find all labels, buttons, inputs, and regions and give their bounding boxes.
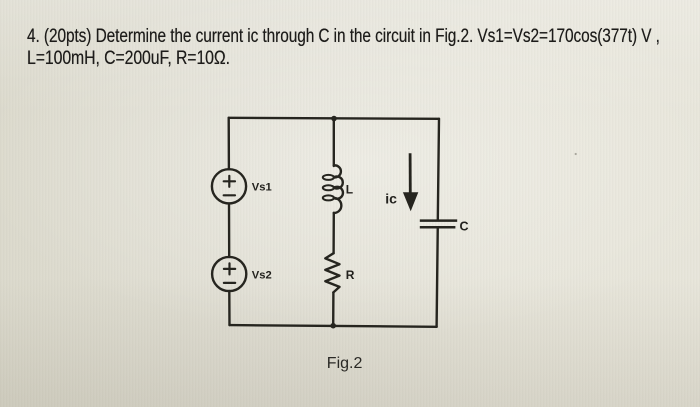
wire middle upper — [333, 118, 335, 166]
problem text line 2 — [27, 48, 230, 70]
svg-text:L: L — [346, 182, 353, 196]
problem text line 1 — [27, 26, 660, 48]
Vs2 plus sign — [224, 263, 235, 274]
wire left middle — [228, 203, 231, 257]
wire right lower — [437, 228, 438, 327]
wire middle between L and R — [332, 213, 335, 253]
junction dot top — [331, 116, 337, 122]
wire right upper — [438, 119, 439, 220]
current arrow ic shaft — [409, 153, 412, 194]
wire top — [229, 118, 439, 119]
junction dot bottom — [330, 323, 336, 329]
svg-text:Vs1: Vs1 — [252, 182, 272, 194]
Vs2 minus sign — [224, 282, 235, 284]
inductor L loop 3 — [323, 195, 334, 200]
wire left upper — [227, 118, 230, 169]
svg-text:Fig.2: Fig.2 — [327, 355, 363, 372]
svg-text:R: R — [346, 268, 355, 282]
wire middle lower — [332, 292, 335, 325]
inductor L loop 2 — [323, 185, 334, 190]
voltage source Vs1 circle — [212, 169, 246, 203]
capacitor C top plate — [420, 219, 457, 222]
speck artifact — [575, 153, 577, 155]
capacitor C bottom plate — [420, 226, 456, 229]
voltage source Vs2 circle — [212, 257, 246, 291]
inductor L loop 1 — [323, 175, 334, 180]
current arrow ic head — [403, 192, 418, 211]
Vs1 plus sign — [224, 176, 235, 187]
svg-text:C: C — [460, 220, 469, 234]
svg-text:Vs2: Vs2 — [252, 269, 272, 281]
Vs1 minus sign — [224, 194, 235, 196]
wire bottom — [230, 325, 437, 327]
inductor L coil arcs — [334, 165, 343, 213]
svg-text:ic: ic — [385, 191, 397, 207]
wire left lower — [228, 291, 231, 325]
resistor R zigzag — [325, 253, 339, 292]
